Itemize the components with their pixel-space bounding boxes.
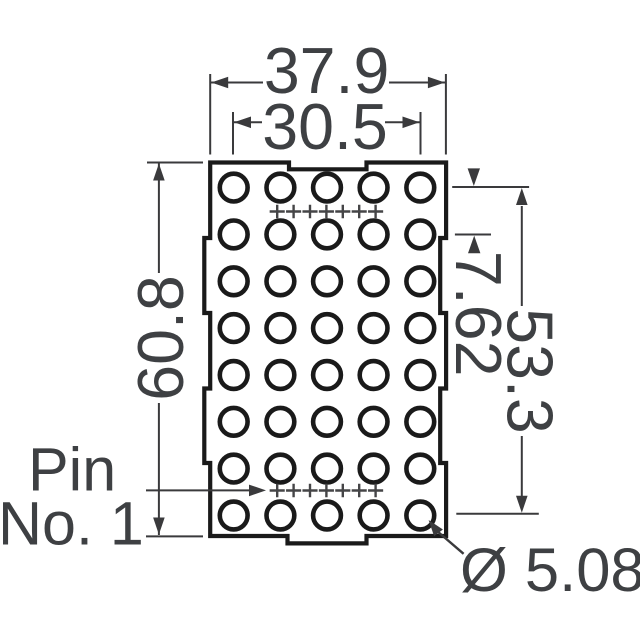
dim 53.3 line (521, 206, 523, 496)
dim 30.5 arrows (234, 117, 420, 129)
dim 37.9 arrows (211, 77, 445, 89)
dim 30.5 extension lines (233, 112, 421, 155)
svg-text:7.62: 7.62 (442, 251, 514, 377)
dim 37.9 line (210, 82, 446, 84)
dim 30.5 line (233, 121, 421, 123)
svg-text:30.5: 30.5 (262, 91, 388, 163)
svg-text:60.8: 60.8 (125, 275, 197, 401)
dim 60.8 line (158, 164, 160, 536)
diameter leader line (437, 531, 464, 554)
dim 37.9 extension lines (210, 74, 446, 155)
LED dot grid 5x8 (220, 174, 434, 530)
dim 7.62 extension line row2 (455, 234, 491, 236)
pin no.1 leader arrow (249, 485, 266, 497)
plus marks bottom row (270, 484, 384, 497)
svg-text:No. 1: No. 1 (0, 489, 144, 557)
dim 7.62 arrows (468, 168, 481, 253)
dim 53.3 arrows (516, 188, 528, 513)
plus marks top row (270, 205, 384, 218)
svg-text:Ø 5.08: Ø 5.08 (460, 536, 640, 605)
pin no.1 leader line (146, 489, 250, 491)
dim 53.3 extension lines (452, 187, 539, 514)
dim 60.8 arrows (153, 164, 165, 535)
dim 60.8 extension lines (146, 163, 203, 537)
package outline (204, 163, 446, 544)
diameter leader arrow (429, 520, 443, 536)
